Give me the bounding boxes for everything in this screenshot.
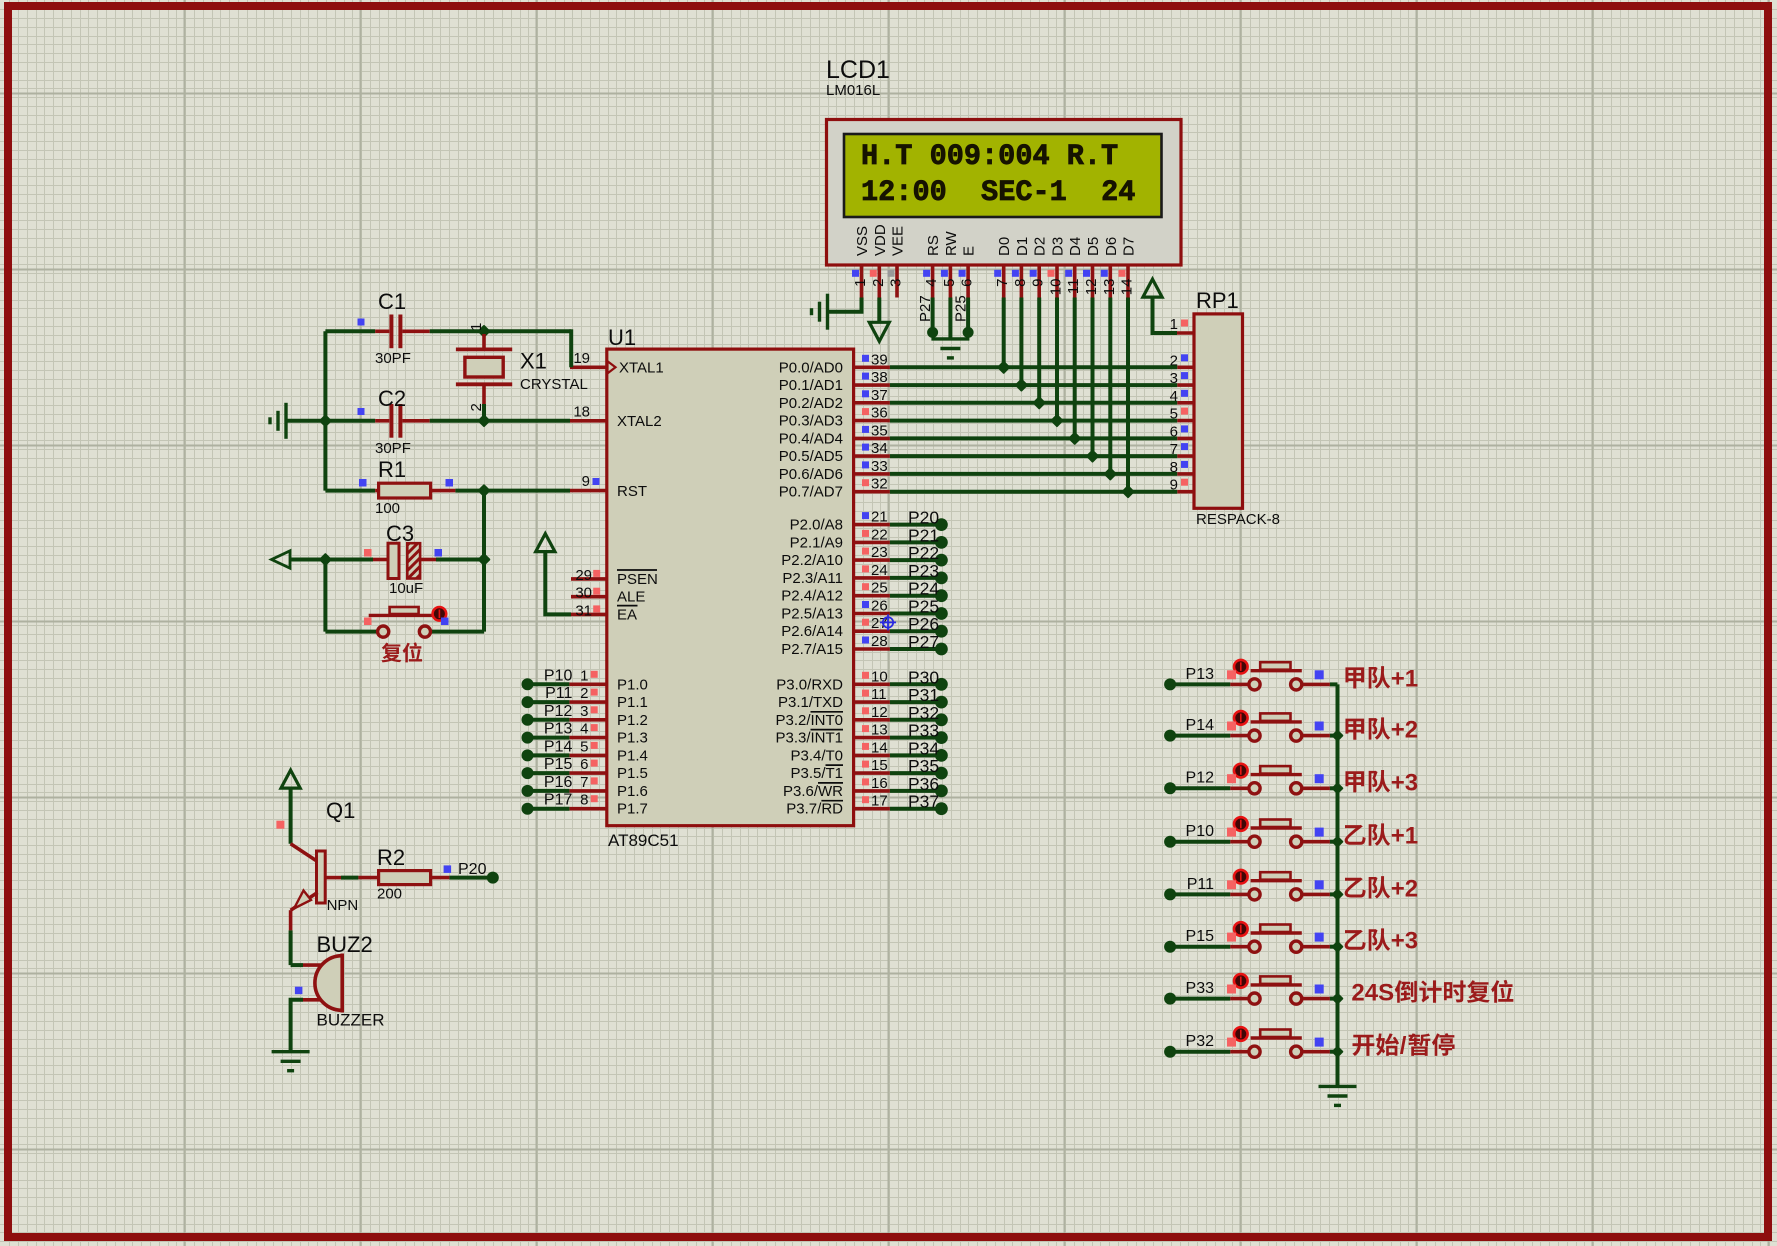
wire emitter down	[289, 930, 293, 965]
BUZ2 marker	[295, 987, 303, 995]
svg-text:200: 200	[377, 886, 402, 903]
svg-text:3: 3	[888, 279, 905, 287]
U1 pin 2 marker	[591, 689, 598, 696]
wire P20	[890, 523, 936, 527]
X1 pin 1 lead	[482, 334, 486, 349]
button P13 right marker	[1315, 670, 1324, 679]
wire P21	[890, 540, 936, 544]
junction X1/C2	[479, 416, 490, 427]
svg-text:P2.7/A15: P2.7/A15	[781, 641, 843, 658]
wire P10	[1170, 840, 1230, 844]
label 甲队+1	[1345, 667, 1364, 688]
button P10 left marker	[1227, 828, 1236, 837]
X1 pin 2 lead	[482, 384, 486, 404]
wire X1 to XTAL2 row	[482, 404, 486, 421]
U1 pin 5 marker	[591, 742, 598, 749]
wire P35	[890, 771, 936, 775]
LCD display LCD1 LM016L body	[827, 120, 1182, 266]
LCD pin 14 stub	[1126, 265, 1130, 298]
svg-text:+3: +3	[1391, 769, 1418, 796]
node P13 terminal	[1164, 678, 1176, 690]
svg-text:P25: P25	[953, 295, 970, 322]
svg-text:11: 11	[871, 686, 887, 703]
cursor crosshair marker	[880, 614, 896, 630]
button P13 right lead	[1302, 683, 1330, 687]
svg-text:P0.3/AD3: P0.3/AD3	[779, 413, 843, 430]
svg-text:P2.5/A13: P2.5/A13	[781, 606, 843, 623]
wire C1 to XTAL1	[430, 329, 572, 333]
node P27 terminal	[927, 327, 938, 338]
U1 pin 16 marker	[862, 778, 869, 785]
RP1 pin 8 marker	[1181, 461, 1188, 468]
junction D7/AD7	[1123, 486, 1134, 497]
svg-text:LM016L: LM016L	[826, 82, 880, 99]
button P12 right lead	[1302, 786, 1330, 790]
button P14 left marker	[1227, 722, 1236, 731]
label 乙队+1	[1345, 825, 1366, 845]
node P32 terminal	[1164, 1046, 1176, 1058]
svg-text:1: 1	[580, 667, 588, 684]
svg-text:33: 33	[871, 458, 888, 475]
wire P24	[890, 594, 936, 598]
wire P32	[1170, 1050, 1230, 1054]
LCD pin 8 marker	[1012, 270, 1019, 277]
wire P10 to bus	[1330, 840, 1338, 844]
U1 pin 34 P0.5 stub	[854, 454, 890, 458]
svg-text:P37: P37	[908, 792, 939, 812]
wire P15	[1170, 945, 1230, 949]
wire P32	[890, 718, 936, 722]
U1 pin 29 PSEN stub	[571, 577, 607, 581]
U1 pin 27 P2.6 stub	[854, 629, 890, 633]
svg-text:12: 12	[871, 704, 888, 721]
svg-text:D1: D1	[1014, 237, 1031, 256]
svg-text:D0: D0	[996, 237, 1013, 256]
C2 right lead	[402, 419, 429, 423]
input arrow terminal	[272, 551, 291, 568]
button P33 actuator	[1234, 974, 1248, 988]
wire D7 vertical	[1126, 298, 1130, 492]
LCD pin 9 stub	[1037, 265, 1041, 298]
R2 right lead	[431, 876, 450, 880]
svg-text:P3.3/INT1: P3.3/INT1	[775, 730, 843, 747]
svg-text:P0.7/AD7: P0.7/AD7	[779, 484, 843, 501]
svg-text:P20: P20	[458, 861, 487, 878]
U1 pin 26 P2.5 stub	[854, 612, 890, 616]
LCD screen	[844, 134, 1162, 217]
svg-text:23: 23	[871, 544, 888, 561]
U1 pin 31 marker	[593, 605, 600, 612]
C1 marker	[358, 319, 365, 326]
U1 pin 27 marker	[862, 619, 869, 626]
svg-text:100: 100	[375, 500, 400, 517]
button P12 right marker	[1315, 774, 1324, 783]
svg-text:P33: P33	[1186, 980, 1215, 997]
wire RW to ground	[948, 298, 952, 339]
junction R1/RST	[479, 485, 490, 496]
U1 pin 14 marker	[862, 743, 869, 750]
junction bus row 3	[1333, 784, 1343, 794]
LCD pin 1 stub	[860, 265, 864, 298]
wire D5 vertical	[1091, 298, 1095, 457]
LCD pin 12 stub	[1091, 265, 1095, 298]
BUZ2 top lead	[303, 963, 325, 967]
RP1 pin 4 stub	[1177, 401, 1194, 405]
wire AD4 bus	[890, 436, 1177, 440]
RP1 pin 3 stub	[1177, 383, 1194, 387]
wire RS net P27	[931, 298, 935, 333]
power +5V for Q1	[281, 770, 300, 788]
wire down to XTAL1	[569, 329, 573, 367]
power VDD arrow	[869, 322, 889, 341]
svg-text:P3.4/T0: P3.4/T0	[790, 747, 843, 764]
button P10 left lead	[1230, 840, 1248, 844]
svg-text:+2: +2	[1391, 875, 1418, 902]
C3 right lead	[420, 558, 436, 562]
svg-text:24: 24	[871, 562, 888, 579]
BUZ2 body	[315, 954, 342, 1013]
wire button bus	[1336, 684, 1340, 1086]
junction D5/AD5	[1087, 451, 1098, 462]
junction D1/AD1	[1016, 380, 1027, 391]
svg-text:D5: D5	[1085, 237, 1102, 256]
button P32 actuator	[1234, 1027, 1248, 1041]
LCD pin 3 marker	[888, 270, 895, 277]
svg-text:19: 19	[573, 350, 590, 367]
svg-text:VDD: VDD	[872, 224, 889, 256]
button P13 left marker	[1227, 670, 1236, 679]
LCD pin 6 marker	[959, 270, 966, 277]
ground for LCD VSS	[812, 294, 828, 330]
junction rail2/C3	[320, 554, 331, 565]
svg-text:P2.6/A14: P2.6/A14	[781, 623, 843, 640]
button P15 left marker	[1227, 933, 1236, 942]
svg-text:P27: P27	[908, 632, 939, 652]
svg-text:P2.1/A9: P2.1/A9	[790, 534, 843, 551]
svg-text:D3: D3	[1050, 237, 1067, 256]
button P32 left lead	[1230, 1050, 1248, 1054]
svg-text:CRYSTAL: CRYSTAL	[520, 376, 588, 393]
LCD pin 10 stub	[1055, 265, 1059, 298]
svg-text:4: 4	[580, 721, 588, 738]
svg-text:VSS: VSS	[854, 226, 871, 256]
U1 pin 31 EA stub	[571, 613, 607, 617]
MCU U1 AT89C51 body	[607, 349, 854, 826]
Q1 emitter lead	[289, 910, 293, 930]
node P34 terminal	[935, 749, 948, 762]
RP1 pin 3 marker	[1181, 372, 1188, 379]
U1 pin 6 P1.5 stub	[569, 771, 606, 775]
wire rail to reset button	[325, 630, 377, 634]
RP1 pin 7 marker	[1181, 443, 1188, 450]
button P12 actuator	[1234, 764, 1248, 778]
svg-text:4: 4	[923, 279, 940, 287]
svg-text:10uF: 10uF	[389, 580, 423, 597]
U1 pin 30 marker	[593, 588, 600, 595]
svg-text:1: 1	[1170, 316, 1178, 333]
LCD pin 10 marker	[1048, 270, 1055, 277]
svg-text:P2.2/A10: P2.2/A10	[781, 552, 843, 569]
wire P10	[528, 682, 570, 686]
svg-text:30: 30	[575, 585, 592, 602]
U1 pin 8 P1.7 stub	[569, 807, 606, 811]
LCD pin 7 marker	[994, 270, 1001, 277]
label 乙队+3	[1345, 930, 1366, 950]
wire P27	[890, 647, 936, 651]
svg-text:32: 32	[871, 476, 888, 493]
U1 pin 11 P3.1 stub	[854, 700, 890, 704]
U1 pin 34 marker	[862, 444, 869, 451]
button P15 left lead	[1230, 945, 1248, 949]
PSEN overline	[617, 569, 657, 571]
U1 pin 1 P1.0 stub	[569, 682, 606, 686]
wire P15 to bus	[1330, 945, 1338, 949]
wire VDD	[877, 298, 881, 323]
svg-text:22: 22	[871, 526, 888, 543]
node P31 terminal	[935, 696, 948, 709]
U1 pin 28 marker	[862, 637, 869, 644]
node P11 terminal	[522, 696, 534, 708]
svg-text:XTAL2: XTAL2	[617, 413, 662, 430]
wire power to RP1 pin1	[1153, 297, 1178, 333]
U1 pin 22 P2.1 stub	[854, 541, 890, 545]
U1 pin 22 marker	[862, 530, 869, 537]
U1 pin 14 P3.4 stub	[854, 754, 890, 758]
U1 pin 13 P3.3 stub	[854, 736, 890, 740]
svg-text:R2: R2	[377, 845, 405, 870]
U1 pin 35 P0.4 stub	[854, 437, 890, 441]
U1 pin 25 P2.4 stub	[854, 594, 890, 598]
svg-text:D2: D2	[1032, 237, 1049, 256]
svg-text:P1.3: P1.3	[617, 730, 648, 747]
button P15 actuator	[1234, 922, 1248, 936]
junction bus row 4	[1333, 837, 1343, 847]
wire P14	[1170, 734, 1230, 738]
LCD pin 5 marker	[941, 270, 948, 277]
node P14 terminal	[1164, 730, 1176, 742]
R2 marker	[444, 865, 452, 873]
svg-text:21: 21	[871, 509, 888, 526]
svg-text:RW: RW	[943, 230, 960, 256]
C2 marker	[358, 408, 365, 415]
svg-text:P1.1: P1.1	[617, 694, 648, 711]
wire R1 to RST	[455, 489, 570, 493]
wire reset button to RST rail	[431, 630, 484, 634]
node P33 terminal	[935, 731, 948, 744]
node P22 terminal	[935, 554, 948, 567]
R1 left marker	[359, 479, 367, 487]
svg-text:P10: P10	[1186, 823, 1215, 840]
button P14 right marker	[1315, 722, 1324, 731]
svg-text:5: 5	[580, 738, 588, 755]
svg-text:P3.7/RD: P3.7/RD	[786, 801, 843, 818]
wire P23	[890, 576, 936, 580]
wire P16	[528, 789, 570, 793]
U1 pin 4 P1.3 stub	[569, 736, 606, 740]
wire left rail C1-R1	[323, 331, 327, 490]
node P16 terminal	[522, 785, 534, 797]
svg-text:P10: P10	[544, 667, 573, 684]
junction bus row 6	[1333, 942, 1343, 952]
LCD pin 2 marker	[870, 270, 877, 277]
ground for C2	[270, 403, 286, 439]
U1 pin 17 P3.7 stub	[854, 807, 890, 811]
svg-text:35: 35	[871, 422, 888, 439]
RP1 pin 4 marker	[1181, 390, 1188, 397]
svg-text:37: 37	[871, 387, 888, 404]
svg-text:+2: +2	[1391, 717, 1418, 744]
wire P33	[890, 736, 936, 740]
LCD pin 13 stub	[1109, 265, 1113, 298]
U1 pin 12 marker	[862, 707, 869, 714]
wire D4 vertical	[1073, 298, 1077, 439]
svg-text:P16: P16	[544, 774, 573, 791]
wire P15	[528, 771, 570, 775]
node P17 terminal	[522, 803, 534, 815]
U1 pin 21 P2.0 stub	[854, 523, 890, 527]
C2 left lead	[375, 419, 389, 423]
wire AD2 bus	[890, 401, 1177, 405]
button P32 left marker	[1227, 1038, 1236, 1047]
RP1 pin 1 marker	[1181, 320, 1188, 327]
button P10 actuator	[1234, 817, 1248, 831]
button P13 actuator	[1234, 660, 1248, 674]
svg-text:Q1: Q1	[326, 798, 355, 823]
button P15 right lead	[1302, 945, 1330, 949]
reset button left marker	[364, 618, 372, 626]
svg-text:D6: D6	[1103, 237, 1120, 256]
button P14 actuator	[1234, 711, 1248, 725]
svg-text:C2: C2	[378, 386, 406, 411]
svg-text:34: 34	[871, 440, 888, 457]
power +5V for RP1	[1143, 279, 1162, 297]
svg-text:VEE: VEE	[890, 226, 907, 256]
svg-text:28: 28	[871, 633, 888, 650]
svg-text:2: 2	[468, 403, 485, 411]
Q1 base lead	[325, 876, 341, 880]
RP1 pin 6 stub	[1177, 437, 1194, 441]
RP1 pin 7 stub	[1177, 454, 1194, 458]
U1 pin 11 marker	[862, 690, 869, 697]
C1 right lead	[402, 329, 429, 333]
resistor pack RP1 RESPACK-8 body	[1194, 314, 1243, 508]
U1 pin 19 XTAL1 stub	[570, 365, 607, 369]
button P32 right lead	[1302, 1050, 1330, 1054]
svg-text:ALE: ALE	[617, 589, 645, 606]
LCD pin 1 marker	[852, 270, 859, 277]
U1 pin 24 P2.3 stub	[854, 576, 890, 580]
button P33 left lead	[1230, 997, 1248, 1001]
U1 pin 18 XTAL2 stub	[570, 419, 607, 423]
U1 pin 9 marker	[593, 478, 600, 485]
C3 minus marker	[435, 549, 443, 557]
svg-text:17: 17	[871, 793, 888, 810]
button P14 right lead	[1302, 734, 1330, 738]
U1 pin 6 marker	[591, 760, 598, 767]
LCD pin 11 stub	[1073, 265, 1077, 298]
svg-text:P32: P32	[1186, 1033, 1215, 1050]
node P37 terminal	[935, 802, 948, 815]
junction D3/AD3	[1052, 415, 1063, 426]
svg-text:E: E	[961, 246, 978, 256]
svg-text:P15: P15	[544, 756, 573, 773]
node P15 terminal	[522, 767, 534, 779]
U1 pin 7 marker	[591, 777, 598, 784]
U1 pin 9 RST stub	[570, 489, 607, 493]
U1 pin 32 P0.7 stub	[854, 490, 890, 494]
node P23 terminal	[935, 572, 948, 585]
C3 plus marker	[364, 549, 372, 557]
RP1 pin 8 stub	[1177, 472, 1194, 476]
ground for buzzer	[272, 1052, 310, 1071]
wire P13 to bus	[1330, 682, 1338, 686]
U1 pin 4 marker	[591, 724, 598, 731]
svg-text:P11: P11	[1187, 876, 1214, 893]
button P10 right marker	[1315, 828, 1324, 837]
U1 pin 26 marker	[862, 601, 869, 608]
svg-text:XTAL1: XTAL1	[619, 360, 664, 377]
U1 pin 28 P2.7 stub	[854, 647, 890, 651]
svg-text:2: 2	[580, 685, 588, 702]
svg-text:P27: P27	[917, 295, 934, 322]
svg-text:/: /	[1400, 1033, 1407, 1060]
LCD pin 7 stub	[1002, 265, 1006, 298]
U1 pin 33 P0.6 stub	[854, 472, 890, 476]
svg-text:26: 26	[871, 598, 888, 615]
LCD pin 14 marker	[1119, 270, 1126, 277]
node P20 terminal	[487, 872, 499, 884]
wire P13	[1170, 682, 1230, 686]
U1 pin 39 marker	[862, 355, 869, 362]
U1 pin 12 P3.2 stub	[854, 718, 890, 722]
svg-text:P13: P13	[544, 721, 573, 738]
svg-text:36: 36	[871, 405, 888, 422]
svg-text:PSEN: PSEN	[617, 571, 658, 588]
svg-text:24S: 24S	[1351, 980, 1394, 1007]
R1 left lead	[375, 489, 378, 493]
U1 XTAL1 clock input symbol	[608, 361, 616, 373]
svg-text:P1.5: P1.5	[617, 765, 648, 782]
RP1 pin 9 marker	[1181, 479, 1188, 486]
node P26 terminal	[935, 625, 948, 638]
node P30 terminal	[935, 678, 948, 691]
svg-text:P15: P15	[1186, 928, 1215, 945]
node P13 terminal	[522, 732, 534, 744]
svg-text:RP1: RP1	[1196, 288, 1239, 313]
wire P26	[890, 629, 936, 633]
node P25 terminal	[935, 607, 948, 620]
wire AD7 bus	[890, 490, 1177, 494]
wire P12	[528, 718, 570, 722]
svg-text:7: 7	[580, 774, 588, 791]
wire P17	[528, 807, 570, 811]
junction D2/AD2	[1034, 397, 1045, 408]
label 甲队+2	[1345, 719, 1364, 740]
U1 pin 36 P0.3 stub	[854, 419, 890, 423]
wire C2 to XTAL2	[430, 419, 570, 423]
svg-text:P13: P13	[1186, 666, 1215, 683]
RP1 pin 2 marker	[1181, 354, 1188, 361]
button P12 left marker	[1227, 774, 1236, 783]
wire P33	[1170, 997, 1230, 1001]
LCD pin 2 stub	[877, 265, 881, 298]
svg-text:+3: +3	[1391, 928, 1418, 955]
svg-text:11: 11	[1065, 279, 1082, 295]
svg-text:8: 8	[580, 792, 588, 809]
button P12 left lead	[1230, 786, 1248, 790]
Q1 collector marker	[276, 821, 284, 829]
ground for button bus	[1319, 1086, 1357, 1105]
